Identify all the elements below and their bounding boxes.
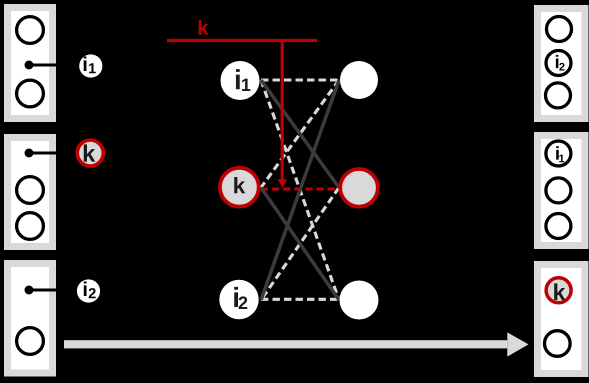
output panel box R3 [538, 265, 586, 374]
node RT (middle right top) [340, 61, 378, 99]
wire red dashed k to RM [261, 187, 339, 190]
node k (middle left, red ring) [220, 168, 259, 207]
wire dashed i1 to RT [261, 78, 339, 81]
output panel box R1 [538, 9, 586, 119]
time arrow (gray) [64, 332, 529, 356]
label node i1 (left) [79, 54, 102, 77]
wire dashed i1 to RB [261, 80, 339, 300]
label node k (left, red ring) [77, 140, 103, 166]
label node i2 (left) [77, 279, 100, 302]
node i2 (middle left bottom) [219, 280, 258, 319]
wire dashed RT to k [261, 80, 339, 188]
wire dashed RM to i2 [261, 188, 339, 301]
node RM (middle right mid, red ring) [340, 169, 378, 207]
red insertion arrow [278, 41, 287, 189]
node i1 (middle left) [221, 61, 260, 100]
wire solid i1 to RM [261, 80, 339, 188]
input panel box L3 [8, 264, 58, 374]
wire solid k to RB [261, 188, 339, 301]
red insertion marker label k [199, 20, 209, 34]
output panel box R2 [538, 136, 586, 246]
wire solid RT to i2 [261, 80, 339, 300]
red insertion bracket line [167, 39, 317, 42]
input panel box L2 [8, 138, 58, 247]
node RB (middle right bottom) [340, 281, 379, 320]
input panel box L1 [8, 8, 58, 119]
wire dashed i2 to RB [261, 298, 339, 301]
